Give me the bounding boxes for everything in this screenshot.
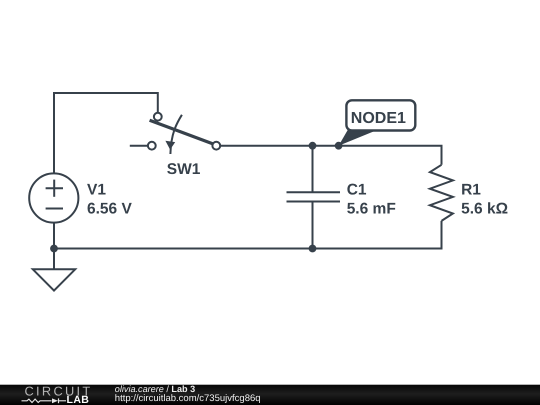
switch SW1 arrowhead	[165, 141, 175, 150]
switch SW1 arrow arc	[170, 115, 182, 154]
ground	[33, 269, 75, 290]
svg-text:5.6 kΩ: 5.6 kΩ	[461, 201, 508, 218]
voltage source V1	[29, 173, 78, 222]
junction dot at ground net	[50, 245, 58, 253]
resistor R1	[430, 165, 453, 221]
svg-text:C1: C1	[347, 181, 367, 198]
svg-text:SW1: SW1	[167, 161, 201, 178]
wire stub left of SW1 throw terminal	[130, 145, 148, 147]
svg-text:V1: V1	[87, 181, 106, 198]
svg-text:LAB: LAB	[67, 394, 90, 405]
svg-text:http://circuitlab.com/c735ujvf: http://circuitlab.com/c735ujvfcg86q	[115, 393, 261, 404]
wire from V1 top to switch SW1 top terminal	[54, 93, 158, 174]
switch SW1 left terminal	[148, 142, 156, 150]
wire from SW1 right terminal to resistor R1 top	[220, 146, 441, 165]
junction dot at capacitor top	[309, 142, 317, 150]
wire bottom horizontal	[54, 221, 442, 249]
junction dot at NODE1	[335, 142, 343, 150]
switch SW1 right terminal	[212, 142, 220, 150]
svg-text:6.56 V: 6.56 V	[87, 201, 132, 218]
switch SW1 bar	[150, 120, 213, 144]
footer bar	[0, 385, 540, 405]
svg-text:NODE1: NODE1	[351, 110, 406, 127]
bottom wire (ground net)	[53, 222, 55, 269]
node NODE1 callout box	[346, 100, 415, 130]
svg-text:R1: R1	[461, 181, 481, 198]
CircuitLab logo squiggle (resistor + diode)	[22, 399, 52, 402]
junction dot at capacitor bottom	[309, 245, 317, 253]
svg-text:5.6 mF: 5.6 mF	[347, 201, 396, 218]
switch SW1 top terminal	[154, 113, 162, 121]
CircuitLab logo diode	[52, 398, 58, 403]
node NODE1 callout tail	[339, 130, 374, 146]
capacitor C1	[287, 146, 341, 249]
